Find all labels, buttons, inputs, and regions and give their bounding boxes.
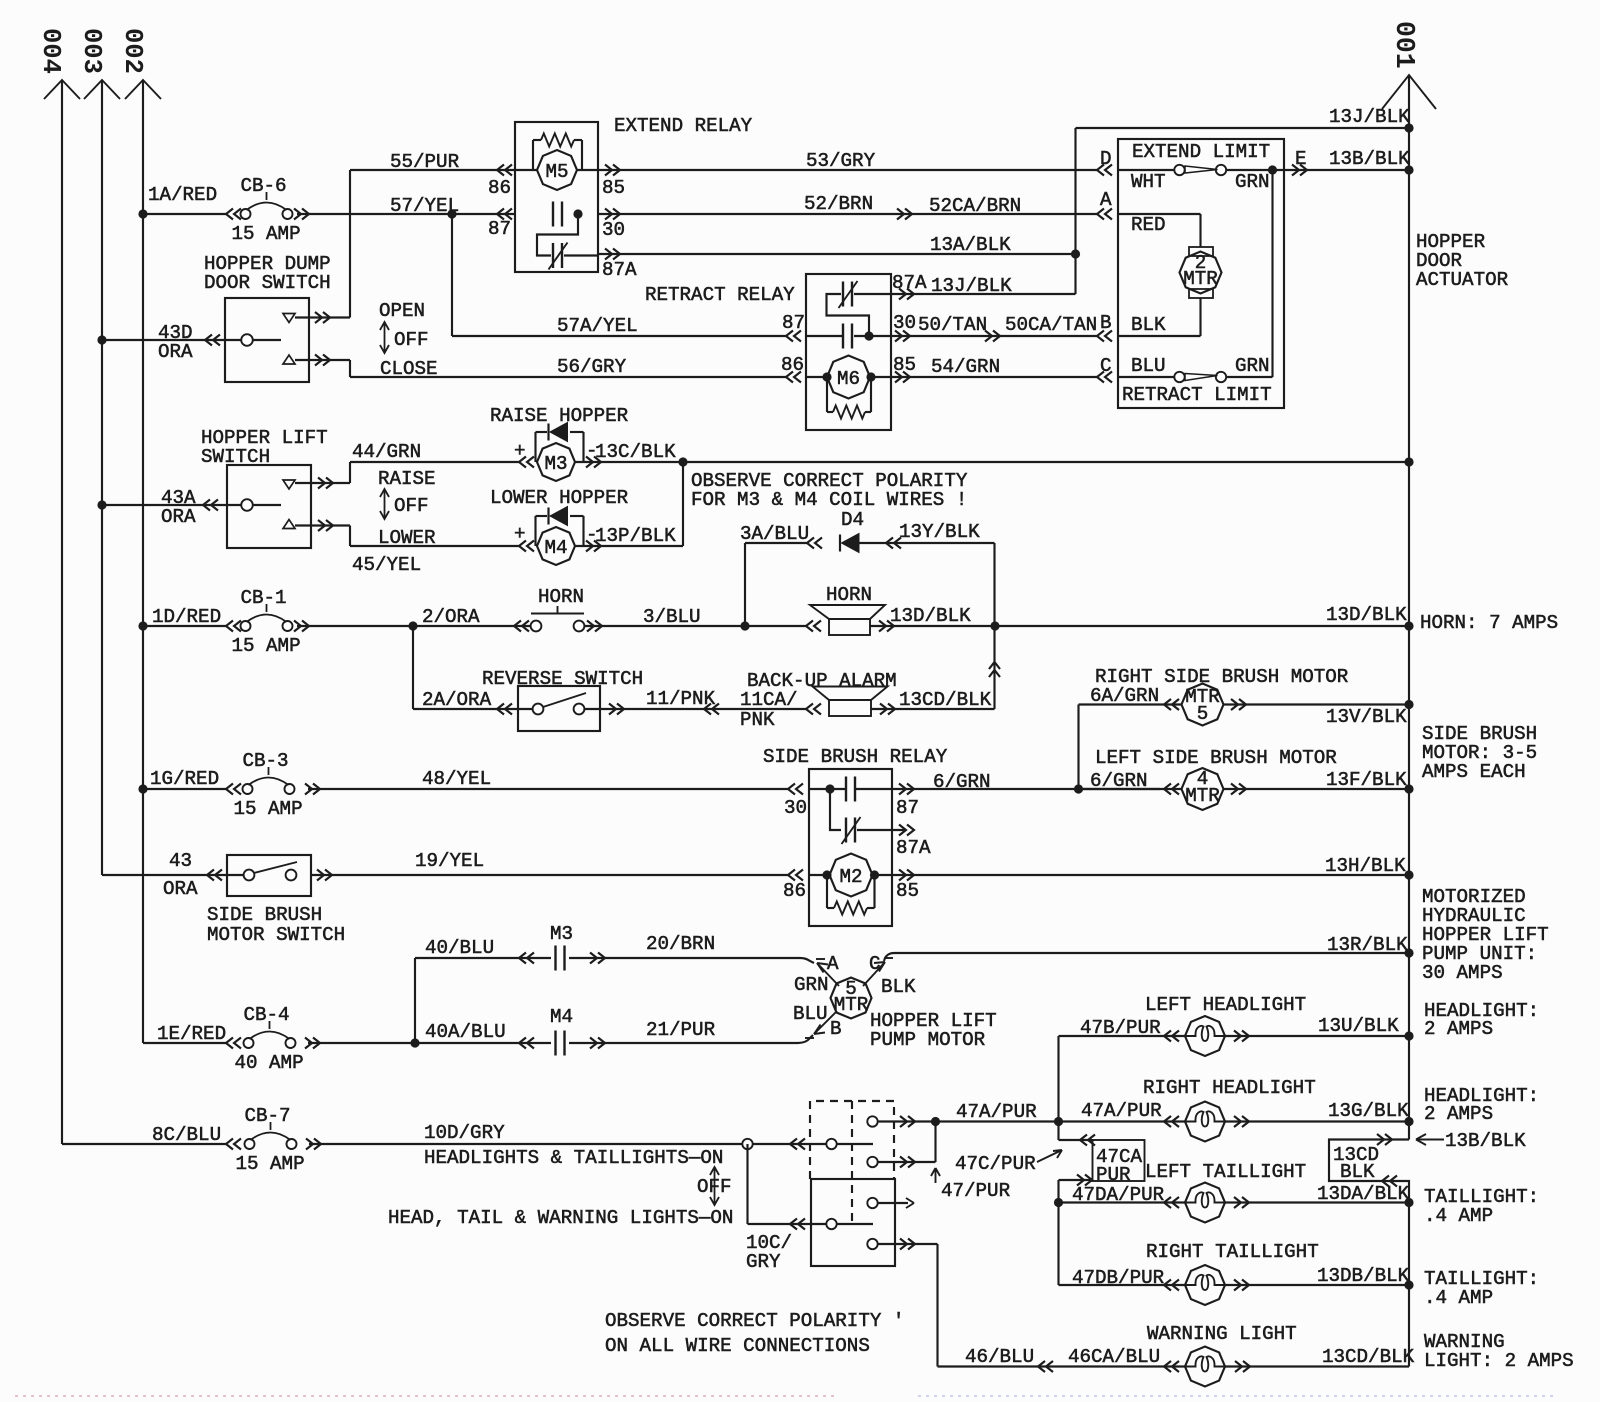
wire 48/YEL <box>305 784 320 795</box>
net 003 feeder arrow <box>101 80 103 875</box>
svg-text:50/TAN: 50/TAN <box>918 314 987 336</box>
wire 45/YEL <box>349 526 351 547</box>
wire 10D/GRY <box>306 1139 321 1150</box>
svg-text:BLU: BLU <box>1131 355 1166 377</box>
svg-text:AMPS EACH: AMPS EACH <box>1422 761 1526 783</box>
svg-text:13CD/BLK: 13CD/BLK <box>1322 1346 1415 1368</box>
wire 13A/BLK <box>605 249 620 260</box>
svg-text:10D/GRY: 10D/GRY <box>424 1122 505 1144</box>
svg-text:M6: M6 <box>837 368 860 390</box>
svg-text:6A/GRN: 6A/GRN <box>1090 685 1159 707</box>
svg-text:M4: M4 <box>550 1006 573 1028</box>
svg-text:BLU: BLU <box>793 1003 828 1025</box>
resistor of side brush relay coil <box>826 875 828 908</box>
circuit breaker CB-7 15 AMP <box>245 1139 255 1149</box>
svg-text:EXTEND RELAY: EXTEND RELAY <box>614 115 753 137</box>
wire jog to NC contact <box>830 789 841 830</box>
svg-text:+: + <box>514 523 526 545</box>
node junction pin30 <box>864 331 873 340</box>
svg-text:MTR: MTR <box>1185 785 1220 807</box>
svg-text:52CA/BRN: 52CA/BRN <box>929 195 1021 217</box>
switch common contact <box>241 334 253 346</box>
resistor of extend relay coil <box>532 140 534 170</box>
wire 53/GRY <box>605 165 620 176</box>
wire riser open-contact to 55/PUR <box>349 170 351 318</box>
svg-text:3/BLU: 3/BLU <box>643 606 701 628</box>
svg-text:47A/PUR: 47A/PUR <box>956 1101 1037 1123</box>
svg-text:LOWER HOPPER: LOWER HOPPER <box>490 487 629 509</box>
node junction 13DB on bus <box>1404 1280 1413 1289</box>
motor MTR 2 hopper door actuator <box>1189 247 1213 256</box>
svg-text:13G/BLK: 13G/BLK <box>1328 1100 1409 1122</box>
relay M5 NC contact 87A <box>552 243 554 268</box>
wire 11/PNK - 11CA/PNK <box>609 704 624 715</box>
svg-text:11/PNK: 11/PNK <box>646 688 716 710</box>
svg-text:B: B <box>830 1018 842 1040</box>
wire riser 13CD to 13D junction <box>993 626 995 709</box>
light switch contact d spare <box>867 1198 877 1208</box>
switch RAISE contact <box>283 480 295 489</box>
wire 3A/BLU <box>744 543 746 626</box>
svg-text:ORA: ORA <box>163 878 198 900</box>
wire 56/GRY <box>349 360 351 377</box>
node junction 13U on bus <box>1404 1031 1413 1040</box>
svg-text:+: + <box>514 440 526 462</box>
relay coil M6 <box>786 372 801 383</box>
svg-text:47B/PUR: 47B/PUR <box>1080 1017 1161 1039</box>
svg-text:13R/BLK: 13R/BLK <box>1327 934 1408 956</box>
svg-text:13Y/BLK: 13Y/BLK <box>899 521 980 543</box>
svg-text:BLK: BLK <box>881 976 916 998</box>
svg-text:13C/BLK: 13C/BLK <box>595 441 676 463</box>
wire riser 13P to 13C junction <box>682 462 684 546</box>
node junction 13V on bus <box>1404 700 1413 709</box>
svg-text:20/BRN: 20/BRN <box>646 933 715 955</box>
svg-text:53/GRY: 53/GRY <box>806 150 876 172</box>
svg-text:21/PUR: 21/PUR <box>646 1019 716 1041</box>
wire 2A/ORA <box>412 626 414 709</box>
svg-text:13V/BLK: 13V/BLK <box>1326 706 1407 728</box>
svg-text:44/GRN: 44/GRN <box>352 441 421 463</box>
svg-text:CLOSE: CLOSE <box>380 358 438 380</box>
svg-text:LEFT HEADLIGHT: LEFT HEADLIGHT <box>1145 994 1306 1016</box>
switch CLOSE contact <box>283 355 295 364</box>
switch OPEN contact <box>283 314 295 323</box>
svg-text:002: 002 <box>118 28 147 74</box>
svg-text:47/PUR: 47/PUR <box>941 1180 1011 1202</box>
svg-text:2A/ORA: 2A/ORA <box>422 689 492 711</box>
svg-text:ORA: ORA <box>158 341 193 363</box>
wire 54/GRN <box>895 372 910 383</box>
svg-text:8C/BLU: 8C/BLU <box>152 1124 221 1146</box>
light switch contact e in 10C <box>790 1219 805 1230</box>
svg-text:15 AMP: 15 AMP <box>236 1153 305 1175</box>
relay coil M5 <box>497 165 512 176</box>
relay M6 NC contact 87A <box>842 282 844 307</box>
svg-text:30: 30 <box>602 219 625 241</box>
svg-text:30: 30 <box>784 797 807 819</box>
svg-text:CB-1: CB-1 <box>241 587 287 609</box>
node junction 13DA on bus <box>1404 1198 1413 1207</box>
svg-text:13B/BLK: 13B/BLK <box>1329 148 1410 170</box>
net 004 feeder arrow <box>61 80 63 1144</box>
node junction contact-30 <box>573 209 582 218</box>
svg-text:MTR: MTR <box>1183 268 1218 290</box>
wire 57A/YEL <box>451 214 453 336</box>
svg-text:E: E <box>1295 148 1307 170</box>
switch box light switch upper (dashed) <box>810 1101 894 1179</box>
wire 57/YEL <box>294 209 309 220</box>
diode of M3 coil <box>534 432 536 462</box>
wire 13G/BLK <box>1234 1116 1249 1127</box>
svg-text:40A/BLU: 40A/BLU <box>425 1021 506 1043</box>
svg-text:2/ORA: 2/ORA <box>422 606 480 628</box>
relay box EXTEND RELAY <box>515 122 598 272</box>
wire 8C/BLU <box>62 1143 226 1145</box>
wire 13DA/BLK <box>1234 1197 1249 1208</box>
svg-text:13H/BLK: 13H/BLK <box>1325 855 1406 877</box>
circuit breaker CB-6 15 AMP <box>240 213 241 215</box>
svg-text:15 AMP: 15 AMP <box>232 635 301 657</box>
svg-text:WHT: WHT <box>1131 171 1166 193</box>
wire 40A/BLU <box>305 1038 320 1049</box>
switch box light switch lower <box>811 1179 895 1266</box>
wire 1G/RED <box>143 788 226 790</box>
node junction 1A/RED on 002 <box>138 209 147 218</box>
svg-text:46CA/BLU: 46CA/BLU <box>1068 1346 1160 1368</box>
svg-text:1G/RED: 1G/RED <box>150 768 219 790</box>
svg-text:HEADLIGHTS & TAILLIGHTS—ON: HEADLIGHTS & TAILLIGHTS—ON <box>424 1147 723 1169</box>
node junction 13G on bus <box>1404 1117 1413 1126</box>
svg-text:SWITCH: SWITCH <box>201 446 270 468</box>
retract limit switch <box>1118 376 1174 378</box>
wire 13C/BLK to bus <box>683 461 1409 463</box>
svg-text:LEFT SIDE BRUSH MOTOR: LEFT SIDE BRUSH MOTOR <box>1095 747 1337 769</box>
wire 50/TAN - 50CA/TAN <box>895 331 910 342</box>
svg-text:15 AMP: 15 AMP <box>232 223 301 245</box>
svg-text:.4 AMP: .4 AMP <box>1424 1287 1493 1309</box>
svg-text:ORA: ORA <box>161 506 196 528</box>
node junction 13A/BLK <box>1071 249 1080 258</box>
svg-text:OFF: OFF <box>697 1176 732 1198</box>
svg-text:M3: M3 <box>550 923 573 945</box>
svg-text:CB-4: CB-4 <box>244 1004 290 1026</box>
svg-text:CB-6: CB-6 <box>241 175 287 197</box>
pump motor terminal A arrow <box>817 963 839 986</box>
svg-text:87A: 87A <box>602 259 637 281</box>
svg-text:GRN: GRN <box>794 974 829 996</box>
svg-text:RED: RED <box>1131 214 1166 236</box>
node junction extend-limit GRN <box>1268 165 1277 174</box>
svg-text:001: 001 <box>1389 21 1419 69</box>
svg-text:87: 87 <box>488 218 511 240</box>
relay box RETRACT RELAY <box>806 274 891 430</box>
light switch contact a out 47A <box>867 1116 877 1126</box>
node junction 47A/47C <box>931 1117 940 1126</box>
node junction 13J on bus <box>1404 123 1413 132</box>
svg-text:M3: M3 <box>544 453 567 475</box>
svg-text:003: 003 <box>77 28 106 74</box>
svg-text:M2: M2 <box>839 866 862 888</box>
svg-text:BACK-UP ALARM: BACK-UP ALARM <box>747 670 897 692</box>
wire 13U/BLK <box>1234 1031 1249 1042</box>
svg-text:004: 004 <box>36 28 65 74</box>
svg-text:PUR: PUR <box>1096 1164 1131 1186</box>
node junction NO-to-NC jog <box>825 784 834 793</box>
svg-text:52/BRN: 52/BRN <box>804 193 873 215</box>
switch LOWER contact <box>283 520 295 529</box>
svg-text:45/YEL: 45/YEL <box>352 554 421 576</box>
svg-text:13CD/BLK: 13CD/BLK <box>899 689 992 711</box>
svg-text:6/GRN: 6/GRN <box>1090 770 1148 792</box>
wire RED lead inside actuator <box>1118 213 1201 215</box>
wire 40/BLU <box>414 958 416 1043</box>
wire 47/PUR riser <box>934 1122 936 1163</box>
svg-text:RIGHT TAILLIGHT: RIGHT TAILLIGHT <box>1146 1241 1319 1263</box>
node ring 10D/GRY branch <box>742 1139 752 1149</box>
switch common contact <box>241 499 253 511</box>
svg-text:13F/BLK: 13F/BLK <box>1326 769 1407 791</box>
svg-text:SIDE BRUSH RELAY: SIDE BRUSH RELAY <box>763 746 948 768</box>
node junction 13C on bus <box>1404 457 1413 466</box>
svg-text:HORN: HORN <box>826 584 872 606</box>
svg-text:6/GRN: 6/GRN <box>933 771 991 793</box>
svg-text:5: 5 <box>1197 703 1209 725</box>
svg-text:OFF: OFF <box>394 329 429 351</box>
svg-text:B: B <box>1100 312 1112 334</box>
svg-text:48/YEL: 48/YEL <box>422 768 491 790</box>
svg-text:13J/BLK: 13J/BLK <box>931 275 1012 297</box>
switch box HOPPER DUMP DOOR SWITCH <box>225 298 309 382</box>
svg-text:PUMP MOTOR: PUMP MOTOR <box>870 1029 986 1051</box>
svg-text:RETRACT RELAY: RETRACT RELAY <box>645 284 795 306</box>
switch box HOPPER LIFT SWITCH <box>227 465 311 548</box>
svg-text:1D/RED: 1D/RED <box>152 606 221 628</box>
node junction 13H on bus <box>1404 870 1413 879</box>
wire 43D/ORA <box>97 335 106 344</box>
svg-text:GRN: GRN <box>1235 355 1270 377</box>
svg-text:CB-3: CB-3 <box>243 750 289 772</box>
label 13B/BLK pointer <box>1416 1134 1444 1145</box>
wire 10C/GRY <box>746 1144 748 1224</box>
motor MTR 5 hopper lift pump <box>831 978 872 1019</box>
svg-text:55/PUR: 55/PUR <box>390 151 460 173</box>
pump motor terminal C arrow <box>863 962 885 986</box>
scan artifact dotted line <box>15 1395 838 1397</box>
wire 52/BRN - 52CA/BRN <box>605 209 620 220</box>
svg-text:M5: M5 <box>545 161 568 183</box>
node junction 13F on bus <box>1404 784 1413 793</box>
svg-text:OFF: OFF <box>394 495 429 517</box>
light switch contact c out 47C <box>867 1157 877 1167</box>
pump motor terminal B arrow <box>814 1011 837 1034</box>
relay M2 NO contact 30-87 <box>809 788 846 790</box>
node junction 13D on bus <box>1404 621 1413 630</box>
svg-text:2 AMPS: 2 AMPS <box>1424 1018 1493 1040</box>
wire GRN retract-limit to extend-limit junction <box>1226 376 1273 378</box>
wire 13H/BLK <box>899 870 914 881</box>
wire jog to NC contact <box>537 214 578 256</box>
svg-text:HORN: HORN <box>538 586 584 608</box>
wire 13CD/BLK from alarm <box>880 704 895 715</box>
light switch contact b in 10D <box>790 1139 805 1150</box>
svg-text:BLK: BLK <box>1131 314 1166 336</box>
wire 1E/RED <box>143 1042 226 1044</box>
label 47/PUR with arrow <box>931 1168 940 1183</box>
node junction 40A/BLU <box>410 1038 419 1047</box>
circuit breaker CB-1 15 AMP <box>241 621 251 631</box>
svg-text:MTR: MTR <box>834 994 869 1016</box>
light switch contact f out 46 <box>867 1239 877 1249</box>
svg-text:30 AMPS: 30 AMPS <box>1422 962 1503 984</box>
svg-text:86: 86 <box>783 880 806 902</box>
wire 55/PUR <box>350 169 515 171</box>
svg-text:13U/BLK: 13U/BLK <box>1318 1015 1399 1037</box>
relay M5 NO contact 87-30 <box>497 209 512 220</box>
svg-text:54/GRN: 54/GRN <box>931 356 1000 378</box>
svg-text:13D/BLK: 13D/BLK <box>1326 604 1407 626</box>
svg-text:WARNING LIGHT: WARNING LIGHT <box>1147 1323 1297 1345</box>
svg-text:13DB/BLK: 13DB/BLK <box>1317 1265 1410 1287</box>
relay M6 NO contact 87-30 <box>806 335 843 337</box>
node junction 6/GRN <box>1074 784 1083 793</box>
svg-text:3A/BLU: 3A/BLU <box>740 523 809 545</box>
connector 47CA/PUR <box>1057 1122 1059 1141</box>
wire riser 13Y to 13D junction <box>993 543 995 626</box>
wire 44/GRN <box>349 462 351 483</box>
svg-text:46/BLU: 46/BLU <box>965 1346 1034 1368</box>
wire 87A 13J/BLK from retract relay <box>899 289 914 300</box>
svg-text:56/GRY: 56/GRY <box>557 356 627 378</box>
wire 1A/RED <box>143 213 226 215</box>
svg-text:1E/RED: 1E/RED <box>157 1023 226 1045</box>
svg-text:RIGHT HEADLIGHT: RIGHT HEADLIGHT <box>1143 1077 1316 1099</box>
wire riser 13J/BLK <box>1074 128 1076 294</box>
wire 13V/BLK <box>1231 699 1246 710</box>
wire 47A/PUR <box>936 1120 1059 1122</box>
net 001 feeder arrow (hopper door actuator bus) <box>1408 75 1410 1140</box>
wire jog NC to pin30 junction <box>827 294 870 336</box>
svg-text:87A: 87A <box>892 272 927 294</box>
svg-text:13P/BLK: 13P/BLK <box>595 525 676 547</box>
svg-text:FOR M3 & M4 COIL WIRES !: FOR M3 & M4 COIL WIRES ! <box>691 489 967 511</box>
svg-text:OPEN: OPEN <box>379 300 425 322</box>
svg-text:RAISE HOPPER: RAISE HOPPER <box>490 405 629 427</box>
wire 1D/RED <box>143 625 226 627</box>
net 002 feeder arrow <box>142 80 144 1043</box>
svg-text:GRY: GRY <box>746 1251 781 1273</box>
svg-text:SIDE BRUSH: SIDE BRUSH <box>207 904 322 926</box>
svg-text:LIGHT: 2 AMPS: LIGHT: 2 AMPS <box>1424 1350 1574 1372</box>
wire 19/YEL <box>311 874 788 876</box>
wire 43A/ORA <box>97 500 106 509</box>
wire 13F/BLK <box>1231 784 1246 795</box>
svg-text:30: 30 <box>893 312 916 334</box>
svg-text:85: 85 <box>893 354 916 376</box>
node junction 47DA <box>1054 1198 1063 1207</box>
wire 21/PUR <box>590 1038 605 1049</box>
svg-text:BLK: BLK <box>1340 1161 1375 1183</box>
connector 13CD BLK jog <box>1329 1140 1409 1367</box>
svg-text:15 AMP: 15 AMP <box>234 798 303 820</box>
svg-text:85: 85 <box>602 177 625 199</box>
wire BLK lead inside actuator <box>1199 298 1201 336</box>
node junction 13C/BLK <box>678 457 687 466</box>
svg-text:85: 85 <box>896 880 919 902</box>
svg-text:A: A <box>1100 189 1112 211</box>
svg-text:ACTUATOR: ACTUATOR <box>1416 269 1509 291</box>
svg-text:D4: D4 <box>841 509 864 531</box>
wire 13J/BLK top <box>1076 127 1410 129</box>
wire 20/BRN <box>590 953 605 964</box>
svg-text:87: 87 <box>896 797 919 819</box>
node junction 1D/RED on 002 <box>138 621 147 630</box>
circuit breaker CB-4 40 AMP <box>244 1038 254 1048</box>
relay coil M2 <box>788 870 803 881</box>
relay M2 NC contact 87A <box>845 818 847 843</box>
node junction 2/ORA horn branch <box>408 621 417 630</box>
svg-text:MOTOR SWITCH: MOTOR SWITCH <box>207 924 345 946</box>
svg-text:43: 43 <box>169 850 192 872</box>
connector box hopper door actuator <box>1118 139 1284 408</box>
svg-text:A: A <box>827 953 839 975</box>
node junction 13R on bus <box>1404 948 1413 957</box>
node junction 47A/PUR <box>1054 1117 1063 1126</box>
svg-text:1A/RED: 1A/RED <box>148 184 217 206</box>
svg-text:HEAD, TAIL & WARNING LIGHTS—ON: HEAD, TAIL & WARNING LIGHTS—ON <box>388 1207 733 1229</box>
node junction 13D/BLK <box>990 621 999 630</box>
diode of M4 coil <box>534 516 536 546</box>
node junction 13B on bus <box>1404 165 1413 174</box>
svg-text:13D/BLK: 13D/BLK <box>890 605 971 627</box>
svg-text:DOOR SWITCH: DOOR SWITCH <box>204 272 331 294</box>
svg-text:86: 86 <box>781 354 804 376</box>
svg-text:40 AMP: 40 AMP <box>235 1052 304 1074</box>
node junction 3/BLU diode branch <box>740 621 749 630</box>
wire 6/GRN from relay <box>899 784 914 795</box>
node junction 57/YEL <box>447 209 456 218</box>
svg-text:87A: 87A <box>896 837 931 859</box>
switch divider (dashed) <box>851 1101 853 1223</box>
svg-text:57A/YEL: 57A/YEL <box>557 315 638 337</box>
svg-text:47C/PUR: 47C/PUR <box>955 1153 1036 1175</box>
wire 3/BLU <box>587 621 602 632</box>
wire 43/ORA <box>102 874 244 876</box>
svg-text:40/BLU: 40/BLU <box>425 937 494 959</box>
circuit breaker CB-3 15 AMP <box>243 784 253 794</box>
svg-text:HORN: 7 AMPS: HORN: 7 AMPS <box>1420 612 1558 634</box>
wire 13R/BLK <box>884 953 1409 961</box>
svg-text:50CA/TAN: 50CA/TAN <box>1005 314 1097 336</box>
svg-text:47A/PUR: 47A/PUR <box>1081 1100 1162 1122</box>
wire 13CD/BLK to bus <box>1235 1361 1250 1372</box>
svg-text:13A/BLK: 13A/BLK <box>930 234 1011 256</box>
svg-text:M4: M4 <box>544 537 567 559</box>
svg-text:.4 AMP: .4 AMP <box>1424 1205 1493 1227</box>
svg-text:11CA/: 11CA/ <box>740 689 798 711</box>
svg-text:ON ALL WIRE CONNECTIONS: ON ALL WIRE CONNECTIONS <box>605 1335 870 1357</box>
svg-text:13B/BLK: 13B/BLK <box>1445 1130 1526 1152</box>
svg-text:OBSERVE CORRECT POLARITY ': OBSERVE CORRECT POLARITY ' <box>605 1310 904 1332</box>
extend limit switch <box>1118 169 1174 171</box>
svg-text:87: 87 <box>782 312 805 334</box>
svg-text:LEFT TAILLIGHT: LEFT TAILLIGHT <box>1145 1161 1306 1183</box>
node junction 1G/RED on 002 <box>138 784 147 793</box>
svg-text:47DA/PUR: 47DA/PUR <box>1072 1184 1165 1206</box>
svg-text:47DB/PUR: 47DB/PUR <box>1072 1267 1165 1289</box>
wire 13D/BLK <box>879 621 894 632</box>
svg-text:RAISE: RAISE <box>378 468 436 490</box>
